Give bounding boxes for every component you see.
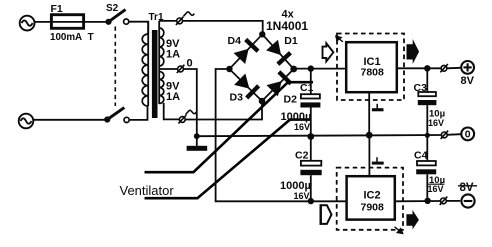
svg-text:S2: S2 (106, 3, 119, 14)
svg-text:0: 0 (187, 58, 193, 70)
svg-text:16V: 16V (294, 122, 310, 132)
svg-text:7908: 7908 (361, 202, 385, 214)
svg-text:7808: 7808 (361, 67, 385, 79)
svg-text:Tr1: Tr1 (149, 12, 164, 23)
svg-text:8V: 8V (460, 182, 474, 194)
svg-text:C3: C3 (414, 82, 428, 94)
svg-text:C4: C4 (414, 150, 428, 162)
svg-text:D4: D4 (228, 35, 242, 47)
svg-text:16V: 16V (428, 184, 444, 194)
svg-text:1A: 1A (166, 49, 180, 61)
svg-text:100mA T: 100mA T (50, 32, 94, 43)
svg-text:0: 0 (465, 129, 471, 141)
svg-text:16V: 16V (428, 118, 444, 128)
svg-text:1N4001: 1N4001 (266, 19, 308, 33)
svg-text:D2: D2 (284, 94, 298, 106)
svg-text:Ventilator: Ventilator (120, 183, 175, 198)
svg-text:F1: F1 (51, 3, 63, 15)
svg-text:C2: C2 (295, 150, 309, 162)
svg-text:D3: D3 (230, 92, 244, 104)
svg-text:16V: 16V (294, 191, 310, 201)
svg-text:8V: 8V (461, 75, 475, 87)
svg-text:1A: 1A (166, 91, 180, 103)
svg-text:IC2: IC2 (364, 190, 381, 202)
svg-text:D1: D1 (284, 35, 298, 47)
svg-text:C1: C1 (300, 82, 314, 94)
svg-text:1000µ: 1000µ (280, 180, 311, 192)
